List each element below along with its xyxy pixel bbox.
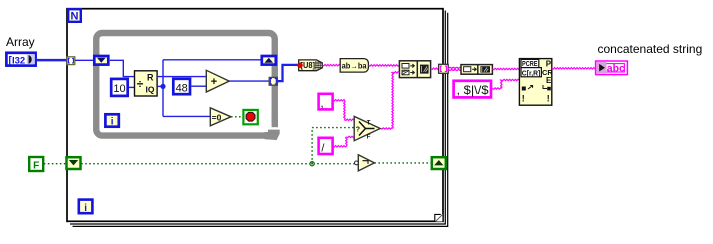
svg-text:Array: Array xyxy=(6,35,35,49)
svg-text:R: R xyxy=(147,73,154,83)
svg-text:10: 10 xyxy=(113,83,125,95)
svg-text:C[r,R]: C[r,R] xyxy=(522,68,541,77)
svg-text:?: ? xyxy=(356,126,360,133)
svg-text:I32: I32 xyxy=(12,55,25,66)
svg-text:48: 48 xyxy=(176,82,188,94)
svg-text:T: T xyxy=(367,120,371,126)
svg-text:+: + xyxy=(211,76,217,88)
svg-text:=0: =0 xyxy=(212,112,222,122)
svg-text:IQ: IQ xyxy=(146,85,155,95)
svg-text:÷: ÷ xyxy=(137,77,144,91)
svg-text:i: i xyxy=(84,203,87,214)
svg-text:!: ! xyxy=(522,94,525,104)
svg-text:N: N xyxy=(71,11,79,23)
svg-text:!: ! xyxy=(547,94,550,104)
svg-text:abc: abc xyxy=(607,63,625,75)
svg-text:ab→ba: ab→ba xyxy=(342,61,368,70)
svg-text:,: , xyxy=(320,96,323,110)
svg-text:F: F xyxy=(367,135,371,141)
svg-text:i: i xyxy=(111,117,114,128)
svg-text:E: E xyxy=(546,76,552,85)
svg-text:, $|\/$: , $|\/$ xyxy=(457,83,489,97)
svg-text:concatenated string: concatenated string xyxy=(598,42,703,56)
svg-text:F: F xyxy=(33,160,39,171)
